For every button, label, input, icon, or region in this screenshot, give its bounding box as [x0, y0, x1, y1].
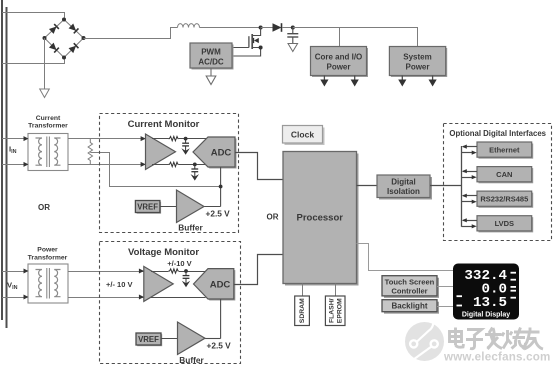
wire PT secondary top [68, 271, 168, 273]
bridge rectifier [43, 18, 86, 60]
wire power rail to power blocks [293, 28, 418, 47]
wire ADC1 out to processor [235, 153, 283, 180]
svg-text:ADC: ADC [210, 280, 231, 291]
arrows below System power [398, 76, 437, 87]
svg-text:CAN: CAN [496, 170, 512, 179]
wire processor to display [357, 244, 454, 271]
svg-text:Processor: Processor [297, 213, 344, 224]
wire bus to CT bottom with arrow [2, 162, 29, 167]
wire processor to FLASH [335, 284, 337, 297]
svg-text:VREF: VREF [137, 203, 158, 212]
capacitor C4 with arrow [182, 271, 190, 287]
svg-text:+/-10 V: +/-10 V [167, 259, 191, 268]
svg-text:+2.5 V: +2.5 V [207, 341, 232, 351]
block SDRAM [295, 296, 310, 326]
block PWM AC/DC [190, 43, 234, 70]
svg-text:Clock: Clock [291, 130, 314, 140]
node vm filter [184, 269, 188, 273]
svg-text:System: System [403, 53, 431, 62]
optional digital interfaces dashed box [444, 124, 552, 241]
watermark hanzi 电 [450, 328, 464, 348]
svg-text:FLASH/: FLASH/ [328, 298, 335, 323]
wire amp2 top out [151, 271, 168, 273]
wire buffer1 out [204, 206, 221, 208]
svg-text:Current Monitor: Current Monitor [128, 119, 200, 130]
resistor burden [88, 139, 92, 165]
svg-text:Optional Digital Interfaces: Optional Digital Interfaces [449, 129, 546, 138]
capacitor C3 with arrow [191, 164, 199, 180]
svg-text:PWM: PWM [201, 48, 221, 57]
block LVDS [477, 216, 533, 233]
ground below PWM [206, 68, 216, 85]
svg-text:Power: Power [326, 63, 350, 72]
wire amp2 bottom out [151, 297, 206, 299]
diode D4 bottom-right [69, 43, 79, 53]
input arrow amp1 top [141, 136, 146, 141]
block Backlight [382, 300, 439, 314]
wire R1 to ADC [179, 138, 207, 140]
svg-text:Backlight: Backlight [391, 302, 427, 311]
block Core and I/O Power [311, 47, 369, 78]
resistor R3 [168, 269, 178, 273]
svg-text:LVDS: LVDS [495, 219, 514, 228]
wire bridge left node to ground [44, 38, 46, 89]
svg-text:Current: Current [36, 115, 61, 122]
wire drain node to diode [261, 27, 273, 29]
svg-text:RS232/RS485: RS232/RS485 [480, 195, 528, 204]
watermark logo circle [405, 321, 444, 362]
watermark hanzi 烧 [502, 328, 526, 349]
block System Power [389, 47, 447, 78]
svg-text:Buffer: Buffer [179, 355, 204, 365]
input arrow amp2 top [139, 269, 144, 274]
wire VREF1 to buffer1 [160, 206, 177, 208]
svg-text:OR: OR [38, 203, 50, 212]
watermark hanzi 发 [485, 328, 502, 350]
block Clock [283, 126, 325, 146]
wire amp1 bottom out [152, 164, 168, 166]
wire PT secondary bottom [68, 297, 206, 299]
wire digital isolation to interface bus [430, 185, 461, 187]
AC bus line 1 [1, 0, 3, 320]
svg-text:Digital: Digital [391, 178, 415, 187]
node filter cap [291, 26, 295, 30]
svg-text:SDRAM: SDRAM [299, 298, 306, 323]
node drain [259, 26, 263, 30]
wire inductor to drain node [200, 27, 261, 29]
wire bridge right node to inductor [84, 28, 178, 39]
svg-text:13.5: 13.5 [473, 295, 507, 311]
svg-text:Transformer: Transformer [28, 255, 68, 262]
wire ADC2 bottom to vref [220, 299, 222, 339]
wire backlight to display [437, 306, 453, 308]
resistor R1 [168, 136, 178, 140]
svg-text:Voltage Monitor: Voltage Monitor [128, 247, 199, 258]
wire bus to PT bottom with arrow [2, 295, 29, 300]
svg-text:Core and I/O: Core and I/O [315, 53, 363, 62]
wire bus to CT top with arrow [2, 136, 29, 141]
svg-text:Touch Screen: Touch Screen [385, 278, 435, 287]
svg-text:+2.5 V: +2.5 V [206, 209, 231, 219]
resistor R2 [168, 162, 178, 166]
svg-text:Power: Power [405, 63, 429, 72]
node common-mode junction [219, 185, 223, 189]
wire diode to cap node [283, 27, 293, 29]
wire CT secondary bottom [68, 164, 168, 166]
can arrows [462, 169, 478, 179]
svg-text:Buffer: Buffer [178, 223, 203, 233]
ADC U5 [194, 269, 236, 301]
processor U7 [283, 152, 359, 286]
transistor Q1 MOSFET [232, 28, 263, 57]
svg-text:Ethernet: Ethernet [489, 146, 520, 155]
diode D1 top-left [49, 24, 59, 34]
wire amp1 top out [152, 138, 168, 140]
buffer U3 [177, 190, 205, 223]
wire ADC2 out to processor [234, 255, 283, 285]
block VREF1 [135, 201, 161, 214]
ADC U2 [193, 137, 237, 169]
wire processor to digital isolation [357, 185, 378, 187]
capacitor C1 [287, 28, 298, 44]
svg-text:OR: OR [267, 213, 279, 222]
wire common-mode tap [90, 153, 220, 187]
wire ADC1 bottom to vref [220, 167, 222, 207]
wire R3 to ADC2 [179, 271, 206, 273]
wire VREF2 to buffer2 [161, 338, 178, 340]
voltage monitor dashed box [100, 242, 241, 364]
svg-text:+/- 10 V: +/- 10 V [106, 280, 132, 289]
op-amp U4 [144, 266, 173, 301]
block Digital Isolation [377, 175, 432, 200]
svg-text:ADC: ADC [211, 148, 232, 159]
current transformer T1 [28, 134, 68, 171]
wire R2 to ADC [179, 164, 206, 166]
op-amp U1 [146, 134, 176, 170]
svg-text:AC/DC: AC/DC [198, 58, 224, 67]
block VREF2 [136, 333, 162, 346]
buffer U6 [178, 322, 206, 355]
wire CT secondary top [68, 138, 168, 140]
power transformer T2 [28, 264, 68, 303]
digital display panel [453, 264, 519, 320]
diode D3 bottom-left [49, 43, 59, 53]
block FLASH/EPROM [325, 296, 345, 326]
wire rail drop to Core power [339, 28, 341, 47]
block Touch Screen Controller [382, 276, 439, 298]
diode D2 top-right [69, 23, 79, 33]
svg-text:VREF: VREF [138, 335, 159, 344]
block CAN [477, 167, 533, 184]
rs232 arrows [462, 194, 478, 204]
current monitor dashed box [100, 114, 239, 233]
wire bus to bridge top [2, 13, 65, 18]
watermark hanzi 子 [466, 330, 483, 349]
wire TSC to display [437, 286, 453, 288]
wire bus to PT top with arrow [2, 269, 29, 274]
ground below C1 [288, 44, 298, 52]
wire processor to SDRAM [302, 284, 304, 297]
svg-text:Isolation: Isolation [387, 187, 420, 196]
AC bus line 2 [6, 7, 8, 328]
svg-text:Digital Display: Digital Display [462, 312, 510, 319]
svg-text:www.elecfans.com: www.elecfans.com [443, 351, 551, 364]
block RS232/RS485 [477, 191, 533, 208]
input arrow amp2 bottom [139, 295, 144, 300]
inductor L1 [178, 24, 200, 28]
capacitor C2 with arrow [181, 139, 189, 155]
svg-text:Transformer: Transformer [28, 123, 68, 130]
wire bus to bridge bottom [2, 60, 65, 64]
input arrow amp1 bottom [141, 162, 146, 167]
node bottom filter [193, 163, 197, 167]
svg-text:Controller: Controller [391, 287, 427, 296]
wire buffer2 out [205, 338, 221, 340]
node top filter [184, 137, 188, 141]
ground below bridge [40, 89, 50, 98]
svg-text:Power: Power [37, 247, 58, 254]
ethernet arrows [462, 145, 478, 155]
arrows below Core power [320, 76, 359, 87]
svg-text:EPROM: EPROM [336, 298, 343, 323]
lvds arrows [462, 218, 478, 228]
diode D5 [273, 23, 282, 32]
block Ethernet [477, 142, 533, 159]
interface bus line [461, 146, 463, 227]
watermark hanzi 友 [523, 328, 544, 350]
